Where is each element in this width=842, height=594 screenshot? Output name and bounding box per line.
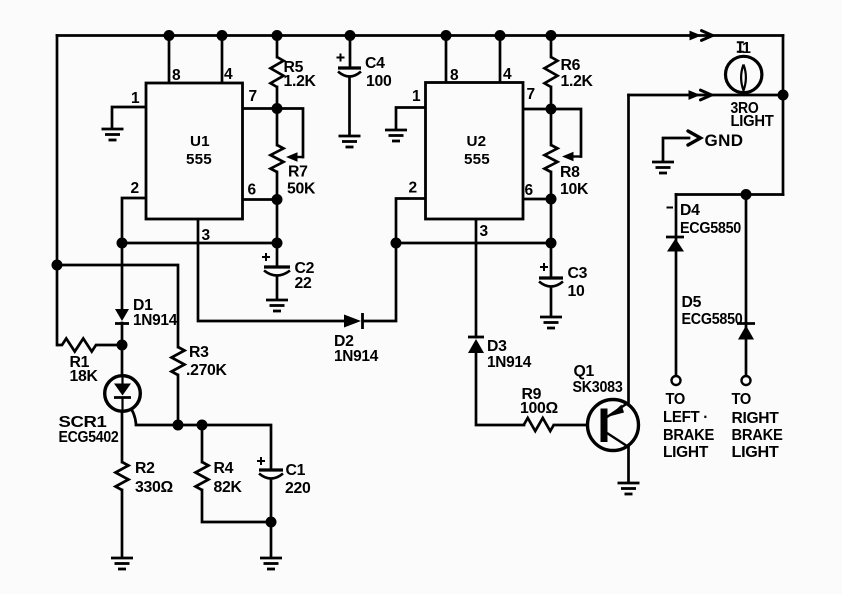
capacitor C1: [257, 457, 283, 479]
wire U2 pin8: [445, 36, 448, 83]
wire U1 pin8: [168, 36, 171, 83]
svg-text:ECG5850: ECG5850: [680, 220, 741, 237]
node junction left rail / R3 branch: [52, 260, 63, 271]
wire brake light header: [676, 193, 783, 196]
wire gate bus to C1: [136, 425, 271, 470]
node node C2 top: [272, 238, 283, 249]
label R9 value: [520, 386, 558, 417]
wire U1 trigger bus: [122, 242, 277, 245]
ground under U1 pin1: [102, 129, 124, 140]
svg-text:LEFT ·: LEFT ·: [663, 409, 708, 426]
svg-text:GND: GND: [705, 131, 744, 150]
label to right brake light: [732, 391, 783, 461]
node junction brake header / D5: [741, 189, 752, 200]
label R5 value: [284, 59, 317, 90]
label C4 value: [365, 55, 392, 90]
label D5: [682, 294, 743, 328]
svg-text:C3: C3: [568, 265, 588, 282]
label C3 value: [568, 265, 588, 300]
svg-text:6: 6: [525, 182, 534, 199]
svg-text:220: 220: [285, 480, 311, 497]
terminal to right brake light: [742, 376, 751, 385]
svg-text:C4: C4: [365, 55, 385, 72]
label D4: [680, 202, 741, 237]
wire R6 top: [550, 36, 553, 57]
wire lamp right vertical: [782, 95, 785, 195]
ground under Q1: [618, 483, 640, 494]
svg-text:1: 1: [131, 90, 140, 107]
label 3RD LIGHT: [731, 100, 775, 130]
wire top supply rail: [57, 34, 783, 37]
label I1: [737, 40, 751, 57]
svg-text:555: 555: [464, 151, 490, 168]
wire D1 to R1 node: [121, 323, 124, 345]
svg-text:1N914: 1N914: [487, 354, 531, 371]
wire R4 bottom loop: [202, 490, 271, 522]
svg-text:50K: 50K: [287, 181, 316, 198]
node node C3 top: [546, 238, 557, 249]
svg-text:6: 6: [248, 182, 257, 199]
node junction rail / U1 pin8: [164, 30, 175, 41]
svg-text:330Ω: 330Ω: [135, 479, 173, 496]
diode D1: [115, 309, 129, 324]
svg-text:R8: R8: [560, 164, 580, 181]
diode D3: [468, 337, 484, 353]
resistor R3: [172, 347, 185, 375]
svg-text:1N914: 1N914: [334, 348, 378, 365]
wire SCR gate line: [127, 403, 136, 424]
ground at GND pointer: [652, 162, 674, 173]
svg-text:R2: R2: [135, 460, 155, 477]
label D2 value: [334, 333, 378, 365]
svg-text:18K: 18K: [70, 368, 99, 385]
pin number labels U1: [131, 66, 258, 244]
svg-text:1: 1: [412, 88, 421, 105]
wire R8 to pin6 node and C3: [550, 172, 553, 278]
transistor SCR1: [105, 376, 141, 412]
label R8 value: [560, 164, 589, 198]
wire D3 to R9: [476, 353, 524, 425]
op-amp U1 555 timer box: [146, 83, 243, 219]
svg-text:3: 3: [480, 223, 489, 240]
svg-text:R4: R4: [214, 460, 234, 477]
resistor R9: [524, 418, 554, 431]
wire C3 to ground: [550, 287, 553, 316]
svg-text:10K: 10K: [560, 181, 589, 198]
node junction rail / C4: [345, 30, 356, 41]
arrows on top rail: [690, 31, 713, 41]
wire U1 pin2 drop: [122, 198, 146, 243]
label D3 value: [487, 338, 531, 371]
transistor Q1: [588, 400, 639, 451]
wire R5 top: [276, 36, 279, 57]
svg-text:ECG5850: ECG5850: [682, 311, 743, 328]
wire U2 pin1 stub: [396, 108, 426, 130]
wire top rail right drop: [782, 36, 785, 96]
wire SCR cathode to R2: [121, 411, 124, 463]
node junction gate bus / R4: [197, 420, 208, 431]
wire R5 to R7: [276, 87, 279, 145]
tick mark near D4: [667, 207, 674, 209]
svg-text:7: 7: [249, 88, 258, 105]
wire C1 bottom: [270, 479, 273, 557]
resistor R7 potentiometer: [271, 145, 284, 172]
svg-text:LIGHT: LIGHT: [732, 444, 780, 461]
wire U1 pin7 line: [243, 109, 304, 158]
svg-text:1N914: 1N914: [133, 312, 177, 329]
wire R2 to ground: [121, 490, 124, 557]
wire pin2 node to D1: [121, 243, 124, 309]
resistor R8 potentiometer: [545, 145, 558, 172]
svg-text:8: 8: [172, 67, 181, 84]
node junction rail / U2 pin8: [441, 30, 452, 41]
wire C2 to ground: [276, 277, 279, 299]
wire U2 pin7 line: [523, 109, 581, 157]
wire U1 pin6 line: [243, 198, 278, 201]
svg-text:Q1: Q1: [574, 363, 595, 380]
wire C4 top: [349, 36, 352, 68]
svg-text:C1: C1: [286, 462, 306, 479]
wire R4 top: [201, 425, 204, 462]
svg-text:D4: D4: [680, 202, 700, 219]
wiper arrow R7: [286, 152, 303, 162]
svg-text:R6: R6: [561, 57, 581, 74]
resistor R1: [57, 339, 122, 352]
label R4 value: [214, 460, 243, 496]
svg-text:U2: U2: [467, 133, 487, 150]
wire D2 to U2 pin2 node: [364, 243, 396, 321]
wire U2 pin6 line: [523, 198, 551, 201]
svg-text:2: 2: [131, 180, 140, 197]
wire left branch to R3: [57, 265, 178, 347]
svg-text:4: 4: [224, 66, 233, 83]
svg-text:22: 22: [295, 275, 312, 292]
svg-text:7: 7: [527, 86, 536, 103]
svg-text:RIGHT: RIGHT: [732, 410, 780, 427]
ground under C2: [266, 300, 288, 311]
op-amp U2 555 timer box: [426, 83, 524, 220]
svg-text:TO: TO: [732, 391, 752, 408]
svg-text:LIGHT: LIGHT: [731, 113, 775, 130]
svg-text:2: 2: [409, 180, 418, 197]
wire U1 pin3 output: [198, 219, 344, 321]
wire Q1 emitter to ground: [627, 447, 630, 482]
label R6 value: [561, 57, 594, 90]
node junction R1 / D1 / SCR anode: [117, 340, 128, 351]
wiper arrow R8: [562, 152, 581, 162]
svg-text:R7: R7: [288, 164, 308, 181]
svg-text:1.2K: 1.2K: [561, 73, 594, 90]
ground under R2: [111, 558, 133, 569]
wire U2 pin3 to D3: [475, 219, 478, 337]
node junction lamp line / rail drop: [778, 90, 789, 101]
wire Q1 collector riser: [627, 95, 630, 402]
wire D4 drop: [675, 195, 678, 377]
ground under C1: [260, 558, 282, 569]
node junction rail / U2 pin4: [495, 30, 506, 41]
label R7 value: [287, 164, 316, 198]
diode D4: [666, 237, 684, 252]
wire third-light line from Q1 collector: [629, 94, 784, 97]
svg-text:SK3083: SK3083: [573, 379, 623, 396]
label R3 value: [186, 344, 228, 379]
label SCR1: [59, 414, 119, 446]
label R1 value: [70, 354, 99, 385]
label C1 value: [285, 462, 311, 497]
node junction rail / U1 pin4: [217, 30, 228, 41]
svg-text:D3: D3: [487, 338, 507, 355]
svg-text:BRAKE: BRAKE: [732, 427, 783, 444]
svg-text:TO: TO: [666, 391, 686, 408]
capacitor C2: [262, 253, 290, 276]
pin number labels U2: [409, 66, 536, 240]
wire U2 trigger bus: [396, 242, 551, 245]
wire U2 pin2 line: [396, 199, 426, 244]
svg-text:LIGHT: LIGHT: [663, 444, 709, 461]
wire U2 pin4: [499, 36, 502, 83]
ground under C4: [339, 136, 361, 147]
svg-text:U1: U1: [190, 133, 210, 150]
wire R6 to R8: [550, 87, 553, 145]
node junction U2 pin6 / R8: [546, 194, 557, 205]
label D1 value: [133, 297, 177, 329]
wire U1 pin4: [221, 36, 224, 83]
svg-text:R3: R3: [189, 344, 209, 361]
wire C4 bottom to ground: [348, 77, 351, 135]
wire R1 node to SCR anode: [121, 345, 124, 376]
svg-text:100: 100: [366, 73, 392, 90]
terminal to left brake light: [672, 376, 681, 385]
node node U2 pin2 / D2: [391, 238, 402, 249]
diode D5: [737, 324, 755, 340]
svg-text:D5: D5: [682, 294, 702, 311]
label to left brake light: [663, 391, 714, 461]
node junction gate bus / R3: [173, 420, 184, 431]
wire R3 bottom: [177, 375, 180, 425]
node junction rail / R6: [546, 30, 557, 41]
svg-text:82K: 82K: [214, 479, 243, 496]
svg-text:BRAKE: BRAKE: [663, 427, 714, 444]
arrowhead GND pointer: [688, 131, 701, 145]
capacitor C4: [337, 54, 362, 77]
node junction U2 pin7 / R6-R8: [546, 104, 557, 115]
wire D5 drop: [745, 195, 748, 377]
svg-text:1.2K: 1.2K: [284, 73, 317, 90]
arrows on third-light line: [689, 90, 712, 100]
svg-text:555: 555: [186, 151, 212, 168]
resistor R5: [271, 57, 284, 87]
svg-text:ECG5402: ECG5402: [59, 429, 119, 446]
wire R9 to Q1 base: [554, 424, 601, 427]
label R2 value: [135, 460, 173, 496]
ground under C3: [540, 317, 562, 328]
wire R7 to pin6 node and C2: [276, 172, 279, 267]
capacitor C3: [539, 263, 563, 287]
wire GND pointer lead: [663, 138, 689, 161]
resistor R2: [116, 462, 129, 490]
svg-text:10: 10: [568, 283, 585, 300]
resistor R4: [196, 462, 209, 490]
label Q1: [573, 363, 623, 396]
wire left rail: [56, 36, 59, 346]
node junction U1 pin6 / R7: [272, 194, 283, 205]
lamp I1: [726, 56, 762, 92]
svg-text:8: 8: [450, 67, 459, 84]
diode D2: [344, 313, 363, 329]
svg-text:.270K: .270K: [186, 362, 228, 379]
ground under U2 pin1: [385, 130, 407, 141]
node node U1 pin2 / trigger bus: [117, 238, 128, 249]
svg-text:100Ω: 100Ω: [520, 400, 558, 417]
svg-text:3: 3: [202, 227, 211, 244]
wire U1 pin1 stub: [112, 107, 146, 128]
node junction R4 / C1 bottom: [266, 517, 277, 528]
label GND: [705, 131, 744, 150]
label C2 value: [295, 260, 315, 292]
node junction rail / R5: [272, 30, 283, 41]
node junction U1 pin7 / R5-R7: [272, 103, 283, 114]
svg-text:4: 4: [503, 66, 512, 83]
resistor R6: [545, 57, 558, 87]
